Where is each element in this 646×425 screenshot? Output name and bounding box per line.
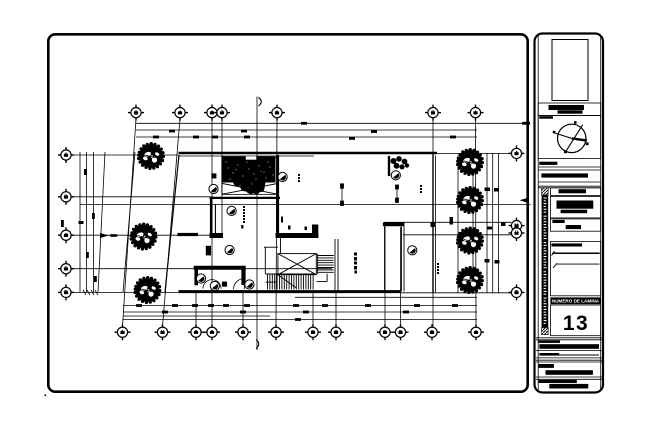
svg-text:A: A [474, 330, 478, 336]
svg-text:H: H [161, 330, 165, 336]
svg-text:B: B [431, 110, 435, 116]
svg-text:D: D [64, 290, 68, 296]
svg-text:6: 6 [211, 330, 214, 336]
svg-text:6: 6 [211, 110, 214, 116]
svg-text:A: A [474, 110, 478, 116]
svg-text:9: 9 [276, 110, 279, 116]
svg-text:5: 5 [195, 330, 198, 336]
svg-text:9: 9 [275, 330, 278, 336]
svg-text:13: 13 [563, 312, 589, 335]
svg-text:2: 2 [135, 110, 138, 116]
svg-text:C: C [334, 330, 338, 336]
svg-text:8: 8 [242, 330, 245, 336]
svg-text:4: 4 [179, 110, 182, 116]
svg-text:C: C [64, 233, 68, 239]
svg-text:1: 1 [121, 330, 124, 336]
svg-text:D: D [64, 195, 68, 201]
svg-text:D: D [383, 330, 387, 336]
svg-text:7: 7 [221, 110, 224, 116]
svg-text:D: D [515, 290, 519, 296]
svg-text:NUMERO DE LAMINA: NUMERO DE LAMINA [552, 299, 600, 304]
svg-text:A: A [64, 153, 68, 159]
svg-text:A: A [515, 151, 519, 157]
svg-text:B: B [311, 330, 315, 336]
svg-text:H: H [515, 231, 519, 237]
svg-text:F: F [430, 330, 433, 336]
